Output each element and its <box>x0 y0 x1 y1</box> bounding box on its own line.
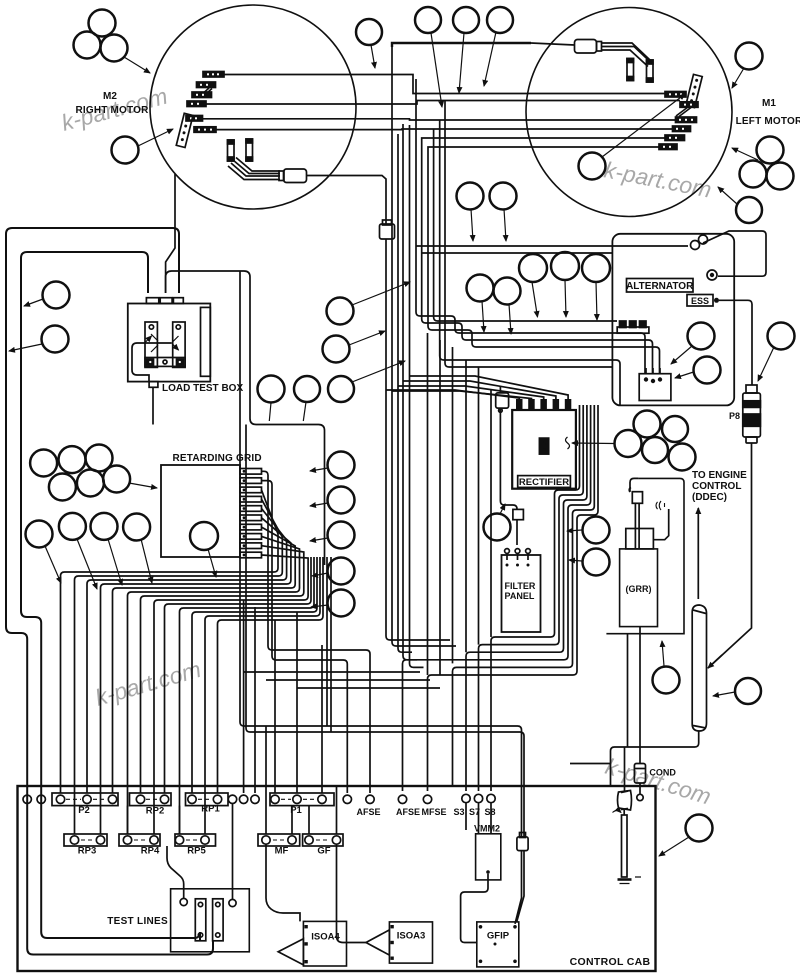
wire MF to ISOA4 <box>266 844 300 921</box>
svg-text:P2: P2 <box>78 805 90 816</box>
leader circle 30 <box>675 372 694 378</box>
load test box bottom terminal strip <box>145 358 185 367</box>
wire staircase L2 <box>75 499 283 834</box>
svg-text:A: A <box>542 441 547 448</box>
callout circle 9 <box>112 137 139 164</box>
wire bundle extension hooks <box>398 386 412 652</box>
svg-text:LOAD TEST BOX: LOAD TEST BOX <box>162 383 243 394</box>
leader circle 14 <box>718 187 737 204</box>
M2 connector bar B4 <box>187 101 206 107</box>
GRR shoulder <box>626 529 654 549</box>
callout circle 39 <box>735 678 761 704</box>
svg-text:CONTROL: CONTROL <box>692 481 741 492</box>
svg-text:S3: S3 <box>453 807 464 817</box>
leaders column five <box>310 468 328 471</box>
M2 connector bar B5 <box>186 116 203 122</box>
ISOA3 triangle <box>366 930 389 955</box>
M2 slanted terminal connector <box>176 113 193 147</box>
callout five cluster b <box>662 416 688 442</box>
svg-text:k-part.com: k-part.com <box>92 656 204 711</box>
callout cluster of six circles <box>30 450 57 477</box>
callout circle 30 <box>694 357 721 384</box>
wire plug to GFIP <box>515 851 524 924</box>
wire right bundle R6 <box>428 405 599 791</box>
wire mid verticals right of bundle <box>427 333 429 675</box>
callout circle 38 <box>653 667 680 694</box>
svg-text:MFSE: MFSE <box>421 807 446 817</box>
leader circle 10 <box>602 94 685 157</box>
svg-text:AFSE: AFSE <box>356 807 380 817</box>
leader grid inner <box>208 549 216 577</box>
wire RP5 to test lines <box>167 846 184 898</box>
leader circle 18 <box>9 344 42 351</box>
wire to alternator terminal block 3 <box>428 326 660 374</box>
filter connector plug <box>513 509 524 545</box>
callout circle 17 <box>43 282 70 309</box>
terminal strip RP5 <box>175 834 216 846</box>
callout circle 40 <box>686 815 713 842</box>
callout circle 19 <box>327 298 354 325</box>
GFIP box <box>477 922 519 967</box>
plug connector above GFIP <box>517 833 528 851</box>
svg-text:RIGHT MOTOR: RIGHT MOTOR <box>75 105 149 116</box>
ISOA4 box <box>303 921 346 966</box>
callout circle 16 <box>490 183 517 210</box>
wire into alternator box left <box>445 363 612 367</box>
callout circle 14 <box>736 197 762 223</box>
terminal strip RP4 <box>119 834 160 846</box>
wire M1 B6 descend <box>428 147 659 160</box>
lone terminal circles row1 <box>23 794 495 803</box>
wire alternator feed B <box>422 252 612 254</box>
svg-text:ESS: ESS <box>691 296 709 306</box>
terminal strip MF <box>258 834 300 846</box>
callout row of four circles <box>26 521 53 548</box>
svg-text:TO ENGINE: TO ENGINE <box>692 470 747 481</box>
wire fuse feed <box>531 43 575 45</box>
leader circle 17 <box>24 299 43 306</box>
wire load test box loop <box>166 271 325 565</box>
callout circle 4 <box>356 19 382 45</box>
GRR bracket wire <box>653 509 668 540</box>
leader circle 19 <box>352 282 410 305</box>
wire right bundle R5 <box>453 405 595 786</box>
svg-text:M2: M2 <box>103 91 117 102</box>
svg-text:P8: P8 <box>729 411 740 421</box>
wire into alternator box bottom <box>440 356 620 405</box>
svg-text:RP5: RP5 <box>187 846 206 857</box>
wire lone risers <box>244 600 255 793</box>
terminal strip RP1 <box>186 793 229 806</box>
central bundle verticals <box>385 239 387 390</box>
leader circle 20 <box>349 331 385 345</box>
wire row2 feed RP5a <box>179 806 181 834</box>
retarding grid terminals <box>240 469 262 558</box>
GRR enclosure <box>606 478 684 633</box>
svg-text:GF: GF <box>317 846 330 857</box>
svg-text:AFSE: AFSE <box>396 807 420 817</box>
test lines terminal circles <box>180 898 236 906</box>
leader from six cluster to grid <box>129 483 157 488</box>
wire P8 to cylinder <box>708 443 752 668</box>
wire staircase L12 <box>205 557 320 834</box>
callout circle 25 <box>551 252 579 280</box>
callout circle 24 <box>519 254 547 282</box>
callout circle 29 <box>688 323 715 350</box>
leader circle 27 <box>482 301 484 332</box>
callout circle 27 <box>467 275 494 302</box>
leader circle 26 <box>596 282 597 320</box>
motor M1 left motor ellipse <box>526 8 732 217</box>
callout circle 13 <box>767 163 794 190</box>
wire row2 feed RP4a <box>127 806 129 834</box>
M2 connector bar B6 <box>194 127 216 133</box>
M1 connector bar B5 <box>665 135 685 141</box>
wire enclosure drop <box>627 634 629 747</box>
wire solenoid feed <box>624 747 626 791</box>
terminal strip P1 <box>270 793 334 806</box>
M2 cable elbow wires <box>228 158 280 180</box>
leader circle 22 <box>269 403 271 422</box>
svg-text:GFIP: GFIP <box>487 931 510 942</box>
GRR spark symbol <box>656 501 665 510</box>
wire GF to ISOA3 <box>337 844 367 942</box>
svg-text:(GRR): (GRR) <box>626 584 652 594</box>
callout circle 26 <box>582 254 610 282</box>
wire staircase L6 <box>128 536 300 834</box>
wire staircase L9 <box>165 557 312 793</box>
leader circle 15 <box>471 209 473 241</box>
control cab outline <box>18 786 656 971</box>
wire stub left of solenoid drop <box>570 763 611 765</box>
svg-text:k-part.com: k-part.com <box>603 753 714 810</box>
wire M1 B5 descend <box>422 138 665 155</box>
M1 connector bar B3 <box>676 117 697 123</box>
leader circle 6 <box>459 33 464 93</box>
leader circle 16 <box>504 209 506 241</box>
wire thick bus M2 to M1 fuse <box>392 43 531 47</box>
wire M2 B5 to M1 B3 jog <box>203 119 676 120</box>
test lines slot A <box>195 899 206 941</box>
M1 brush cylinder <box>575 40 602 54</box>
callout circle 3 <box>101 35 128 62</box>
wire staircase L7 <box>141 546 304 793</box>
svg-text:RP4: RP4 <box>141 846 160 857</box>
leader circle 24 <box>532 282 538 317</box>
wire staircase L3 <box>87 509 287 794</box>
wire outer left frame loop <box>6 228 213 955</box>
load test box outline <box>128 304 211 382</box>
M1 connector bar B6 <box>659 144 677 150</box>
rectifier AD tag <box>539 438 548 454</box>
svg-text:CONTROL CAB: CONTROL CAB <box>570 956 651 968</box>
rectifier left fuse holder <box>496 386 509 412</box>
M2 vertical connector A <box>228 140 235 161</box>
wire staircase L1 <box>61 490 279 793</box>
alternator R terminal <box>707 270 717 280</box>
wire RP1 to test lines <box>232 804 234 900</box>
M2 connector bar B2 <box>197 82 216 88</box>
terminal strip P2 <box>52 793 118 806</box>
M2 vertical connector B <box>246 139 253 161</box>
callout circle grid inner <box>190 522 218 550</box>
callout circle 11 <box>757 137 784 164</box>
wire branch into cylinder <box>708 655 722 668</box>
wire M2 to load test box middle connector <box>166 174 175 293</box>
load test box inner door bar <box>201 307 211 376</box>
callout circle 22 <box>258 376 285 403</box>
leader circle 8 <box>732 68 744 88</box>
load test box switch arrows <box>145 342 172 344</box>
M2 connector bar B3 <box>192 92 212 98</box>
leader circle 11 <box>732 148 758 160</box>
wire to alternator terminal block 2 <box>422 319 653 374</box>
GRR stem <box>635 503 639 548</box>
terminal strip GF <box>303 834 343 846</box>
filter panel box <box>502 555 541 632</box>
svg-text:RP3: RP3 <box>78 846 96 857</box>
wire grid terminal t0 to AFSE drop <box>262 471 371 793</box>
svg-text:ALTERNATOR: ALTERNATOR <box>626 281 694 292</box>
callout circle 8 <box>736 43 763 70</box>
M1 vertical connector A <box>627 59 634 81</box>
wire M2 B1 to M1 B1 jog <box>224 75 665 94</box>
load test box top connector 2 <box>160 298 172 304</box>
svg-text:LEFT MOTOR: LEFT MOTOR <box>736 116 800 127</box>
callout circle 31 <box>768 323 795 350</box>
M1 connector bar B2 <box>680 102 698 108</box>
wire plug drop A <box>240 271 522 836</box>
wire to alternator terminal block 1 <box>416 312 645 374</box>
wire staircase L13 <box>218 557 324 793</box>
wire M2 B6 to M1 B4 jog <box>215 128 673 131</box>
test lines box <box>171 889 250 952</box>
wire plug drop B <box>246 425 524 839</box>
leader circle 38 <box>662 641 664 666</box>
leader circle 37b <box>569 560 582 561</box>
VMM2 pin <box>486 870 490 874</box>
callout circle 1 <box>89 10 116 37</box>
wire bundle extension left pair <box>386 390 450 640</box>
wire mid verticals <box>327 557 331 732</box>
alternator top terminal <box>691 235 708 250</box>
label ALTERNATOR <box>626 279 694 293</box>
leader circle 5 <box>431 33 442 107</box>
wire mid horizontals to risers <box>244 672 440 688</box>
callout circle 28 <box>494 278 521 305</box>
3-pin connector <box>617 321 649 333</box>
leader circle 25 <box>565 280 566 317</box>
wire staircase L11 <box>192 557 317 793</box>
leader circle 40 <box>659 837 689 856</box>
label ESS <box>687 295 719 307</box>
leader from circle 3 to M2 <box>124 57 150 73</box>
callout circle 10 <box>579 153 606 180</box>
callout circle 23 <box>294 376 320 402</box>
svg-text:D: D <box>542 448 547 455</box>
GRR body <box>620 549 658 627</box>
svg-text:RP2: RP2 <box>146 806 164 817</box>
callout circle 12 <box>740 161 767 188</box>
M2 connector bar B1 <box>203 72 224 78</box>
callout circle 21 <box>328 376 354 402</box>
leader circle 21 <box>352 361 405 382</box>
wire staircase L5 <box>113 527 296 793</box>
load test box bottom connector <box>149 382 158 388</box>
svg-text:k-part.com: k-part.com <box>602 156 714 202</box>
callout five cluster e <box>669 444 696 471</box>
callout circle 15 <box>457 183 484 210</box>
wire M2 B4 to M1 B2 jog <box>206 101 680 105</box>
wire fuse down to filter connector <box>500 412 517 509</box>
M1 cable elbow wires <box>602 43 652 67</box>
wire right bundle R2 <box>479 405 584 791</box>
M1 connector bar B1 <box>665 92 686 98</box>
ISOA3 box <box>389 922 432 963</box>
load test box left bulge wire <box>132 343 149 382</box>
leaders row of four <box>45 546 61 583</box>
svg-text:FILTER: FILTER <box>505 581 536 591</box>
leader from 5 to circle <box>572 442 614 445</box>
wire inner left frame loop <box>21 252 200 941</box>
callout five cluster c <box>615 430 642 457</box>
load test box top connector 1 <box>146 298 158 304</box>
alternator terminal block <box>639 368 671 401</box>
svg-text:TEST LINES: TEST LINES <box>107 916 168 927</box>
P8 connector <box>743 385 761 443</box>
callout five cluster a <box>634 411 661 438</box>
alternator enclosure box <box>612 234 734 406</box>
svg-text:MF: MF <box>275 846 289 857</box>
rectifier pins <box>516 399 571 410</box>
callout five cluster d <box>642 437 668 463</box>
GRR cap connector <box>629 478 642 503</box>
svg-text:COND: COND <box>649 768 676 778</box>
M1 zigzag mark <box>676 107 691 117</box>
test lines slot B <box>213 899 224 941</box>
wire COND feed <box>639 627 641 764</box>
COND capacitor <box>634 764 645 801</box>
callout circle 37b <box>583 549 610 576</box>
leader circle 28 <box>509 304 511 334</box>
wire cylinder bottom run <box>611 731 699 786</box>
wire right bundle R1 <box>491 405 580 791</box>
leader circle 37a <box>567 530 582 531</box>
callout circle 6 <box>453 7 479 33</box>
wire right bundle R3 <box>466 405 587 791</box>
wire staircase L10 <box>180 557 315 834</box>
callout column five circles <box>328 452 355 479</box>
leader circle 9 <box>138 129 173 146</box>
VMM2 box <box>476 834 501 880</box>
load test box right relay <box>173 322 185 367</box>
wire P1c3 riser <box>321 645 323 793</box>
ISOA4 triangle <box>278 939 303 965</box>
M2 brush cylinder <box>279 169 307 183</box>
svg-text:RP1: RP1 <box>201 804 220 815</box>
wire S7 S8 into VMM2 <box>466 803 491 834</box>
wire VMM2 to GFIP <box>461 874 488 943</box>
terminal strip RP2 <box>130 793 172 806</box>
wire M2 cylinder to component <box>307 176 387 225</box>
callout circle 36 <box>484 514 511 541</box>
M2 zigzag mark <box>199 88 212 98</box>
svg-text:(DDEC): (DDEC) <box>692 492 727 503</box>
wire grid terminal t1 to lone drop <box>262 481 348 793</box>
M1 slanted terminal connector <box>686 74 702 107</box>
M1 vertical connector B <box>647 60 654 82</box>
load test box left relay <box>145 322 157 367</box>
wire P1 risers <box>275 612 297 793</box>
leader circle 4 <box>371 45 375 68</box>
terminal strip RP3 <box>64 834 107 846</box>
component small connector below motors <box>380 220 395 239</box>
wire staircase L4 <box>101 518 291 834</box>
svg-text:S8: S8 <box>484 807 495 817</box>
callout circle 37a <box>583 517 610 544</box>
wire row2 feed GF riser <box>292 786 337 834</box>
solenoid symbol <box>613 791 632 813</box>
leader circle 39 <box>713 692 735 696</box>
thermometer tube <box>618 810 642 884</box>
svg-text:PANEL: PANEL <box>505 591 535 601</box>
wire ESS to P8 <box>719 300 752 385</box>
motor M2 right motor ellipse <box>150 5 356 209</box>
cylinder arrester <box>692 605 706 731</box>
retarding grid box <box>161 465 240 557</box>
svg-text:RECTIFIER: RECTIFIER <box>519 477 569 488</box>
callout circle 18 <box>42 326 69 353</box>
filter panel pins <box>505 549 531 567</box>
wire right bundle R4 <box>403 405 591 791</box>
callout circle 2 <box>74 32 101 59</box>
wire alternator top loop <box>416 231 766 276</box>
svg-text:M1: M1 <box>762 98 776 109</box>
svg-text:ISOA3: ISOA3 <box>397 931 426 942</box>
callout circle 20 <box>323 336 350 363</box>
load test box top connector 3 <box>173 298 183 304</box>
wire load test box bottom stub <box>152 388 154 425</box>
leader circle 31 <box>758 347 774 381</box>
arrow to engine control <box>697 508 699 599</box>
callout circle 7 <box>487 7 513 33</box>
leader circle 36 <box>500 504 505 514</box>
ISOA4 pins <box>304 925 307 963</box>
wire rectifier slant feeds <box>386 390 519 404</box>
leader circle 7 <box>484 32 496 86</box>
ISOA3 pins <box>390 925 393 960</box>
callout circle 5 <box>415 7 441 33</box>
rectifier box <box>512 410 576 489</box>
leader circle 29 <box>671 346 692 364</box>
M1 connector bar B4 <box>673 126 691 132</box>
label RECTIFIER <box>518 476 571 488</box>
rectifier 5 squiggle <box>566 437 570 449</box>
wire MF riser <box>265 726 267 834</box>
leader circle 23 <box>303 402 306 421</box>
svg-text:RETARDING GRID: RETARDING GRID <box>173 453 262 464</box>
wire staircase L8 <box>154 555 308 834</box>
wire to 3-pin connector <box>434 317 617 321</box>
